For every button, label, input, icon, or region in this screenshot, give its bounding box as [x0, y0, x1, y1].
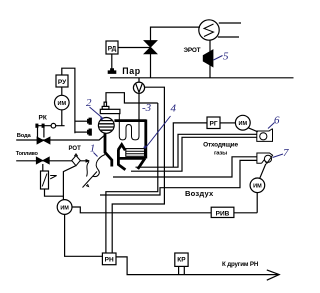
svg-text:ЭРОТ: ЭРОТ	[184, 47, 201, 54]
svg-text:7: 7	[283, 147, 289, 159]
svg-text:Воздух: Воздух	[185, 189, 214, 198]
svg-text:2: 2	[86, 97, 92, 109]
svg-text:4: 4	[171, 103, 177, 115]
svg-text:РД: РД	[108, 46, 117, 53]
svg-text:Пар: Пар	[122, 66, 140, 76]
svg-text:ИМ: ИМ	[239, 121, 248, 127]
svg-text:-3: -3	[142, 102, 152, 114]
svg-text:газы: газы	[214, 151, 227, 157]
svg-text:К другим РН: К другим РН	[222, 261, 259, 268]
svg-text:РУ: РУ	[58, 79, 67, 86]
svg-text:ИМ: ИМ	[60, 206, 69, 212]
svg-text:Отходящие: Отходящие	[203, 141, 238, 148]
svg-text:РИВ: РИВ	[216, 211, 230, 218]
svg-text:Вода: Вода	[17, 133, 32, 139]
svg-text:5: 5	[223, 51, 229, 63]
svg-text:1: 1	[90, 143, 96, 155]
svg-text:РН: РН	[105, 257, 114, 264]
svg-text:КР: КР	[177, 257, 186, 264]
svg-text:РГ: РГ	[209, 121, 217, 128]
svg-text:6: 6	[274, 115, 280, 127]
svg-text:ИМ: ИМ	[253, 184, 262, 190]
svg-text:РОТ: РОТ	[69, 146, 82, 152]
svg-text:Топливо: Топливо	[16, 151, 39, 157]
svg-text:ИМ: ИМ	[58, 101, 67, 107]
svg-text:РК: РК	[39, 115, 47, 122]
